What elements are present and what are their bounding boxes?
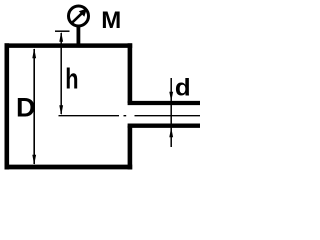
dimension d line <box>170 78 172 147</box>
svg-text:d: d <box>175 74 191 101</box>
wire pipe bottom wall <box>128 123 200 127</box>
wire tank top wall <box>5 43 133 48</box>
dimension h line <box>60 33 62 114</box>
node centerline dash-dot <box>59 115 201 117</box>
dimension D line <box>33 49 35 164</box>
svg-text:D: D <box>16 93 36 123</box>
wire tank right wall lower <box>128 126 133 170</box>
wire tank bottom wall <box>5 165 133 170</box>
gauge M circle <box>69 6 89 26</box>
wire tank right wall upper <box>128 43 133 103</box>
wire tank left wall <box>5 43 10 169</box>
wire pipe top wall <box>128 101 200 105</box>
svg-text:h: h <box>65 64 78 96</box>
wire tick line at manometer level <box>55 30 70 32</box>
gauge M needle <box>71 12 83 23</box>
svg-text:M: M <box>101 7 121 34</box>
gauge M stem <box>77 26 81 46</box>
